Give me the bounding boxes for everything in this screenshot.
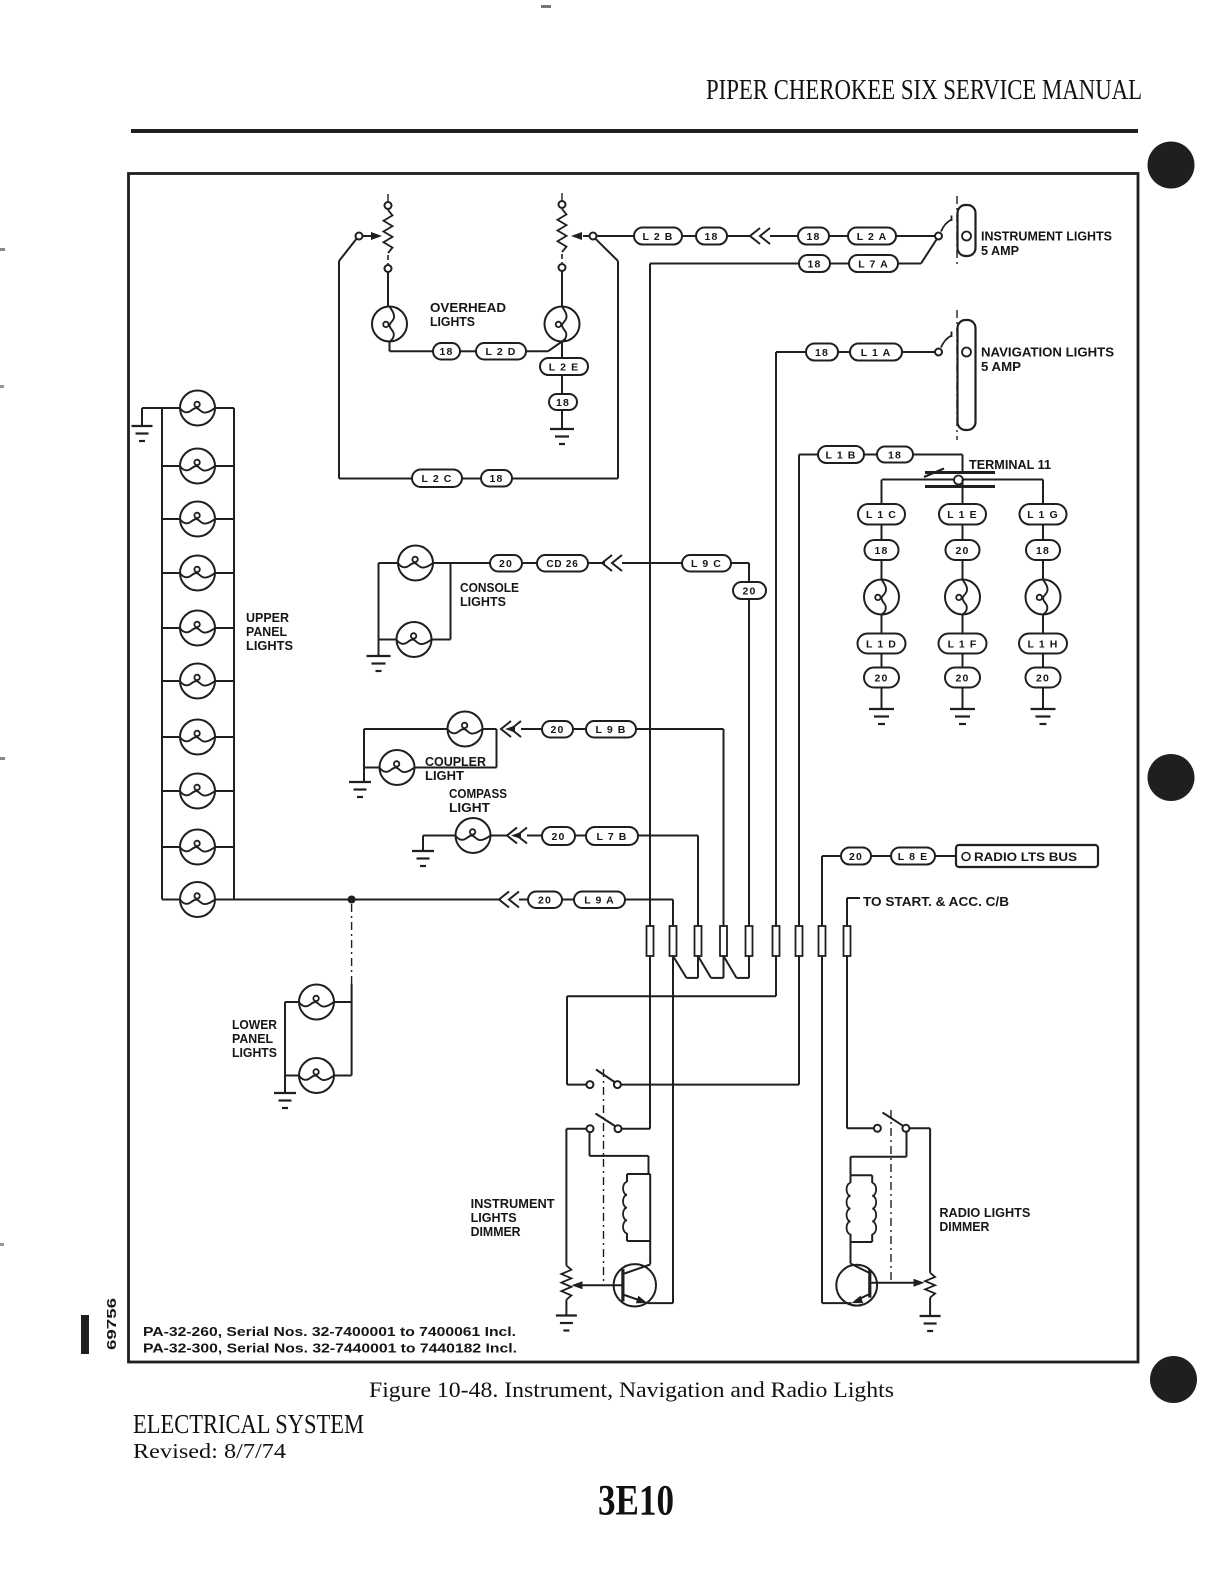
svg-text:L 1 F: L 1 F [948,638,978,650]
svg-text:ELECTRICAL SYSTEM: ELECTRICAL SYSTEM [133,1409,364,1439]
svg-text:COMPASS: COMPASS [449,787,507,801]
svg-text:18: 18 [807,231,821,243]
svg-text:NAVIGATION LIGHTS: NAVIGATION LIGHTS [981,346,1114,360]
svg-text:PA-32-300, Serial Nos. 32-7440: PA-32-300, Serial Nos. 32-7440001 to 744… [143,1341,517,1356]
svg-text:LIGHTS: LIGHTS [460,595,506,609]
svg-text:18: 18 [705,231,719,243]
svg-text:L 2 D: L 2 D [486,346,517,358]
svg-text:18: 18 [440,346,454,358]
svg-text:L 1 H: L 1 H [1028,638,1059,650]
svg-text:DIMMER: DIMMER [471,1225,521,1239]
svg-text:LIGHTS: LIGHTS [232,1046,277,1060]
svg-text:L 1 A: L 1 A [861,347,892,359]
svg-text:LIGHT: LIGHT [449,801,490,815]
svg-text:Figure 10-48. Instrument, Nav: Figure 10-48. Instrument, Navigation and… [369,1377,894,1402]
svg-text:20: 20 [743,585,757,597]
svg-text:18: 18 [556,397,570,409]
svg-text:TERMINAL 11: TERMINAL 11 [969,458,1051,472]
svg-text:PIPER CHEROKEE SIX SERVICE MAN: PIPER CHEROKEE SIX SERVICE MANUAL [706,75,1142,106]
svg-text:LOWER: LOWER [232,1018,277,1032]
svg-text:18: 18 [888,449,902,461]
svg-text:20: 20 [875,672,889,684]
svg-text:PANEL: PANEL [232,1032,273,1046]
svg-text:L 8 E: L 8 E [898,851,928,863]
svg-text:UPPER: UPPER [246,611,289,625]
svg-text:18: 18 [490,473,504,485]
svg-text:LIGHTS: LIGHTS [246,639,293,653]
svg-text:L 1 E: L 1 E [947,509,977,521]
svg-text:LIGHTS: LIGHTS [471,1211,517,1225]
svg-text:L 2 C: L 2 C [422,473,453,485]
svg-text:RADIO LTS BUS: RADIO LTS BUS [974,850,1077,864]
svg-text:Revised: 8/7/74: Revised: 8/7/74 [133,1439,286,1463]
svg-text:RADIO LIGHTS: RADIO LIGHTS [939,1206,1030,1220]
svg-text:20: 20 [551,724,565,736]
svg-text:COUPLER: COUPLER [425,755,486,769]
svg-text:5 AMP: 5 AMP [981,360,1021,374]
svg-text:18: 18 [815,347,829,359]
svg-text:LIGHT: LIGHT [425,769,464,783]
svg-text:L 9 A: L 9 A [584,895,615,907]
svg-text:L 2 A: L 2 A [857,231,888,243]
svg-text:INSTRUMENT: INSTRUMENT [471,1197,555,1211]
svg-text:20: 20 [956,672,970,684]
svg-text:L 2 B: L 2 B [643,231,674,243]
svg-text:20: 20 [499,558,513,570]
svg-text:INSTRUMENT LIGHTS: INSTRUMENT LIGHTS [981,230,1112,244]
svg-text:L 2 E: L 2 E [549,361,579,373]
svg-text:LIGHTS: LIGHTS [430,315,475,329]
svg-text:69756: 69756 [105,1298,119,1350]
svg-text:CD 26: CD 26 [546,559,578,570]
svg-text:L 1 C: L 1 C [866,509,897,521]
svg-text:L 7 A: L 7 A [858,258,889,270]
svg-text:TO START. & ACC. C/B: TO START. & ACC. C/B [863,895,1009,909]
svg-text:20: 20 [956,545,970,557]
svg-text:DIMMER: DIMMER [939,1220,989,1234]
svg-text:18: 18 [875,545,889,557]
svg-text:OVERHEAD: OVERHEAD [430,301,506,315]
svg-text:18: 18 [1036,545,1050,557]
svg-text:L 9 C: L 9 C [691,558,722,570]
svg-text:20: 20 [552,831,566,843]
svg-text:L 1 G: L 1 G [1027,509,1059,521]
svg-text:CONSOLE: CONSOLE [460,581,519,595]
svg-text:18: 18 [808,258,822,270]
svg-text:L 1 B: L 1 B [826,449,857,461]
svg-text:L 9 B: L 9 B [596,724,627,736]
svg-text:L 1 D: L 1 D [866,638,897,650]
svg-text:20: 20 [1036,672,1050,684]
svg-text:5 AMP: 5 AMP [981,244,1019,258]
svg-text:L 7 B: L 7 B [597,831,628,843]
svg-text:20: 20 [849,851,863,863]
svg-text:20: 20 [538,895,552,907]
svg-text:PANEL: PANEL [246,625,287,639]
svg-text:3E10: 3E10 [598,1478,674,1525]
svg-text:PA-32-260, Serial Nos. 32-7400: PA-32-260, Serial Nos. 32-7400001 to 740… [143,1324,516,1339]
